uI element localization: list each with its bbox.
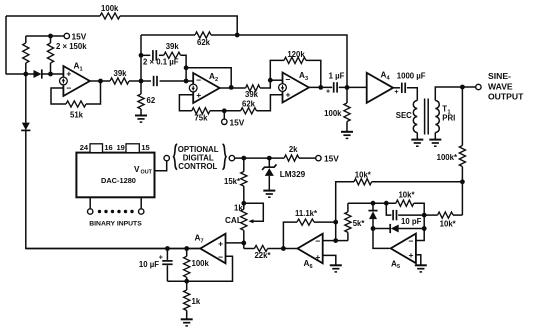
capacitor 1uF coupling [333,82,335,92]
node CAL top [241,201,246,206]
ground A6 plus [330,264,342,266]
transformer T1 primary coil [435,101,439,133]
wire 100k* to row A [461,167,463,182]
op-amp A3 [283,73,309,103]
svg-text:10 pF: 10 pF [401,217,422,226]
svg-text:LM329: LM329 [280,170,306,179]
node LM329 top [267,156,272,161]
resistor 62k (row2) [195,32,211,38]
wire node to lower cap [141,80,151,82]
terminal SINE-WAVE OUTPUT [476,84,481,89]
svg-text:OUTPUT: OUTPUT [488,92,524,102]
wire CAL to 22k [244,248,255,250]
wire SEC bottom to ground [416,133,418,140]
resistor 10k* (to divider) [424,214,437,216]
wire A6 minus to 5k [336,240,348,242]
wire 15k top [243,158,245,171]
svg-text:120k: 120k [287,50,305,59]
node row A right [460,179,465,184]
svg-text:15V: 15V [324,153,339,163]
norton current source symbol A3 [279,84,287,92]
svg-text:19: 19 [117,143,125,152]
node main x141 [139,79,144,84]
wire A3 minus input [270,79,282,81]
diode rectifier vertical (cathode up) [372,203,374,210]
svg-text:15V: 15V [72,32,87,42]
resistor 39k (0.1uF branch) [164,52,181,58]
svg-text:1000 µF: 1000 µF [397,71,426,80]
wire A1 input from left bus [6,73,34,75]
wire top row2 right [211,34,237,36]
svg-text:7: 7 [201,238,204,244]
wire row2 to A4 node [237,35,347,87]
terminal 15V (top left) [64,33,69,38]
wire 15V row [26,35,64,37]
svg-text:15: 15 [141,143,149,152]
svg-text:2 × 0.1 µF: 2 × 0.1 µF [143,58,179,67]
pin notch right [126,144,139,153]
wire A2 plus to 75k [179,95,193,111]
wire 11.1k to minus column [314,221,336,223]
svg-text:51k: 51k [70,111,84,120]
node row B cap [384,201,389,206]
wire row C right [398,214,424,216]
zener diode LM329 [262,164,276,170]
op-amp A7 [200,234,225,264]
node A4 input [345,85,350,90]
resistor 1k (A7 to ground) [186,281,188,290]
wire 39k branch to A2 minus column [181,55,187,81]
svg-text:75k: 75k [194,113,208,122]
svg-text:V: V [134,165,140,174]
wire rowA-right vertical to 10k [461,182,463,215]
norton current source symbol A2 [189,84,197,92]
node junction 15V row [48,34,53,39]
wire 22k to A6 output [268,248,284,250]
svg-text:15V: 15V [230,117,245,127]
svg-text:100k: 100k [192,259,210,268]
node row2 junction [235,33,240,38]
svg-text:−: − [409,236,414,246]
brace right [222,144,226,170]
node A1 output [98,79,103,84]
wire A7 minus loop [167,256,232,281]
wire 51k to output [86,81,101,104]
wire A5 output to diode column [373,229,390,249]
node 10uF tap [165,246,170,251]
wire LM329 row [235,157,285,159]
svg-text:10k*: 10k* [440,219,457,228]
svg-text:−: − [315,236,320,246]
wire top feedback loop left segment [6,15,100,17]
svg-text:−: − [286,74,291,84]
wire row A left segment [336,182,354,241]
svg-text:62k: 62k [197,38,211,47]
wire diode to A1 [43,73,64,75]
ground LM329 [263,190,275,192]
resistor 100k (A4 input to ground) [346,87,348,103]
node A6 output [281,246,286,251]
resistor 100k* (output divider) [459,146,465,167]
wire LM329 stub [268,158,270,167]
wire row C left [386,203,391,215]
svg-text:+: + [394,89,398,96]
wire branch55 start [141,54,150,56]
ground SEC [411,139,423,141]
wire top row2 left [141,34,195,36]
node row D right [422,226,427,231]
svg-text:−: − [66,83,71,93]
node 15V row junction [222,108,227,113]
svg-text:5: 5 [397,264,400,270]
resistor 62k (A3 plus) [241,108,257,114]
svg-text:6: 6 [310,264,313,270]
resistor 62 to ground [140,81,142,94]
terminal optional control right [229,155,234,160]
wire LM329 to ground [268,176,270,190]
wire A5 minus input [416,229,424,241]
diode shutdown (pointing down) [22,123,30,131]
svg-text:+: + [66,69,71,79]
brace left [174,144,178,170]
wire 120k feedback up [270,60,284,80]
wire 62k to A3 plus [257,95,283,111]
wire A6 plus to ground [323,255,336,265]
node 15k top [241,156,246,161]
ground PRI [429,139,441,141]
wire 75k to 62k [210,110,241,112]
diode input (anode left) [34,70,42,78]
resistor 11.1k* [297,219,314,225]
resistor 39k (A2 to A3) [246,85,260,91]
wire x141 vertical [140,35,142,81]
svg-text:10k*: 10k* [398,190,415,199]
svg-text:16: 16 [104,143,112,152]
wire CAL bottom [243,230,245,248]
wire CAL wiper [244,203,263,221]
wire top feedback loop right segment [120,16,237,35]
node A2 feedback tap [184,65,189,70]
binary inputs dots [98,210,101,213]
capacitor 0.1uF upper [152,50,154,60]
ground below 1k [181,318,193,320]
ground A5 plus [415,264,427,266]
svg-text:22k*: 22k* [254,251,271,260]
wire row D left [373,228,390,230]
node bottom row [184,279,189,284]
op-amp A6 [298,234,323,264]
resistor 39k (A1 to A2) [110,78,129,84]
wiper arrowhead [248,219,253,223]
svg-text:100k: 100k [324,109,342,118]
diode rectifier horizontal (cathode left) [389,224,391,233]
svg-text:2 × 150k: 2 × 150k [56,42,87,51]
svg-text:−: − [218,252,223,262]
resistor 75k [192,108,210,114]
ground below 62 [135,115,147,117]
wire CAL to A7 plus [226,242,244,244]
wire A6 minus input [323,240,336,242]
svg-text:5k*: 5k* [353,219,366,228]
wire binary input stub right [140,197,142,209]
svg-text:1k: 1k [234,204,243,213]
wire lower cap to A2 [160,80,194,82]
svg-text:SINE-: SINE- [488,71,511,81]
node A2 output [229,85,234,90]
wire feedback tap to A2 output [186,68,231,88]
node 100k tap [184,246,189,251]
wire 15k to CAL [243,186,245,209]
capacitor 10pF [392,210,394,220]
node x141 upper [139,53,144,58]
wire binary input stub left [89,197,91,209]
svg-text:OUT: OUT [141,169,153,175]
terminal binary input left [88,209,93,214]
ground below 100k [341,131,353,133]
capacitor 1000uF [401,83,403,93]
resistor 120k (A3 feedback) [284,57,306,63]
svg-text:39k: 39k [113,69,127,78]
resistor 150k right [47,43,53,63]
wire output node down [461,87,463,146]
node row C right [422,213,427,218]
svg-text:+: + [315,252,320,262]
op-amp A5 [391,234,416,264]
wire 15V stub [223,111,225,119]
resistor 22k* [254,245,267,251]
wire left bus vertical [5,16,7,74]
resistor 10k* (row B) [396,200,414,206]
terminal binary input right [139,209,144,214]
wire A7 output row (long left) [26,248,201,250]
node junction at 150k left bottom [23,72,28,77]
svg-text:CONTROL: CONTROL [178,162,217,171]
node output junction [460,85,465,90]
svg-text:62k: 62k [242,99,256,108]
svg-text:+: + [326,89,330,96]
wire row A right segment [372,181,463,183]
svg-text:24: 24 [80,143,89,152]
norton current source symbol A1 [60,77,68,85]
resistor 2k [284,155,299,161]
wire A1 minus to 51k loop [51,88,66,104]
svg-text:2k: 2k [289,145,298,154]
IC DAC-1280 body [76,153,154,198]
wire row B right bend [414,203,424,228]
svg-text:1k: 1k [192,297,201,306]
transformer T1 secondary coil [413,101,417,133]
resistor 100k (top feedback) [100,13,120,19]
svg-text:1: 1 [80,66,83,72]
svg-text:+: + [159,255,163,262]
wire to output terminal [462,86,475,88]
wire 39k to A3 minus node [260,80,270,88]
wire A5 plus to ground [416,255,421,265]
terminal 15V (reference) [316,155,321,160]
wire A3 output [309,86,332,88]
svg-text:1 µF: 1 µF [329,71,345,80]
svg-text:100k: 100k [101,4,119,13]
svg-text:100k*: 100k* [437,153,458,162]
op-amp A4 [367,73,393,103]
wire 1uF to A4 [339,86,367,88]
resistor 150k left [23,43,29,63]
svg-text:62: 62 [147,96,156,105]
wire A4 output [391,87,400,89]
op-amp A2 [193,73,219,103]
resistor 51k (A1 feedback) [66,101,86,107]
svg-text:WAVE: WAVE [488,81,513,91]
wire 2k to 15V [299,157,316,159]
node A3 output [318,85,323,90]
wire PRI top to output node [435,87,462,101]
pin notch left [90,144,103,153]
svg-text:39k: 39k [245,90,259,99]
wire PRI bottom to ground [434,133,436,140]
svg-text:SEC: SEC [396,111,412,120]
node A2 minus input [184,79,189,84]
svg-text:39k: 39k [166,42,180,51]
resistor 10k* (row A) [354,179,372,185]
svg-text:3: 3 [305,76,308,82]
terminal VOUT [164,155,169,160]
wire VOUT stub [155,161,167,171]
svg-text:PRI: PRI [442,113,455,122]
svg-text:CAL: CAL [225,216,242,225]
svg-text:−: − [196,75,201,85]
svg-text:10 µF: 10 µF [139,260,159,269]
node A3 minus [268,78,273,83]
node junction at 150k right bottom [48,72,53,77]
wire A2 output [219,87,246,89]
node CAL bottom [241,241,246,246]
op-amp A1 [63,66,89,96]
wire left column to bottom row [26,131,201,249]
svg-text:11.1k*: 11.1k* [295,209,318,218]
node row B diode [371,201,376,206]
wire cap to 39k [159,54,164,56]
svg-text:DAC-1280: DAC-1280 [101,176,136,185]
wire A6 output [283,248,297,250]
wire 120k to A3 output [306,60,321,87]
wire row D right [399,228,425,230]
svg-text:2: 2 [215,77,218,83]
wire A1 output [90,80,110,82]
svg-text:+: + [409,250,414,260]
wire row B [348,202,396,204]
svg-text:+: + [218,238,223,248]
svg-text:+: + [196,90,201,100]
wire 39k to node [129,80,141,82]
capacitor 0.1uF lower [153,76,155,86]
svg-text:10k*: 10k* [355,170,372,179]
resistor 15k* [241,172,247,187]
svg-text:15k*: 15k* [224,177,241,186]
resistor 100k (A7 feedback) [186,249,188,257]
node 11.1k junction [333,220,338,225]
svg-text:BINARY INPUTS: BINARY INPUTS [89,221,142,228]
potentiometer 1k CAL element [241,209,247,230]
node A6 minus [333,238,338,243]
terminal 15V (A2 bias) [222,119,227,124]
transformer T1 core [424,99,426,135]
capacitor 10uF [166,249,168,260]
wire A6 feedback up [283,222,297,248]
resistor 5k* [347,232,349,240]
wire left column down [25,74,27,123]
wire 1000uF to transformer [407,88,417,101]
svg-text:+: + [286,89,291,99]
node row D left [371,226,376,231]
